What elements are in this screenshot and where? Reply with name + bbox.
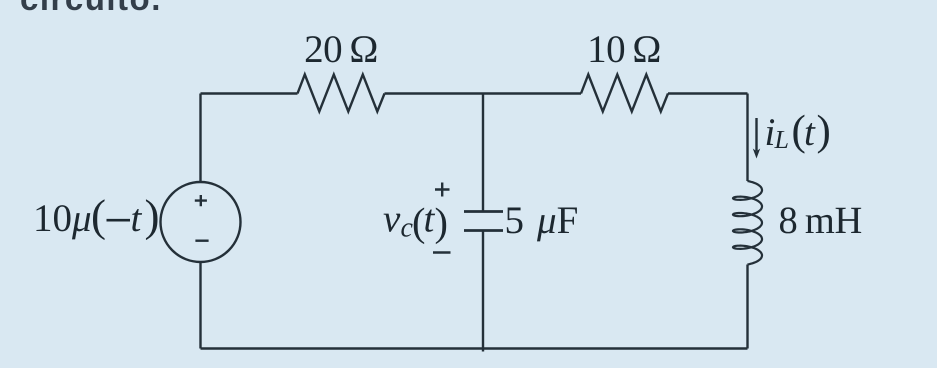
- wire top-right: to right branch: [668, 92, 748, 94]
- resistor R=10ohm zigzag: [581, 75, 668, 112]
- svg-text:5 μF: 5 μF: [505, 199, 579, 242]
- wire top-left: from left branch to 20ohm resistor: [201, 92, 298, 94]
- resistor R=20ohm zigzag: [298, 75, 385, 112]
- wire right branch lower: [746, 265, 748, 349]
- inductor L=8mH coil: [733, 181, 762, 265]
- capacitor C=5uF plates: [464, 212, 503, 231]
- svg-text:): ): [817, 107, 831, 154]
- svg-text:20 Ω: 20 Ω: [304, 28, 378, 71]
- svg-text:10μ: 10μ: [33, 197, 92, 240]
- svg-text:): ): [435, 200, 448, 245]
- label iL(t): [765, 107, 831, 154]
- capacitor plus sign: [435, 183, 450, 197]
- wire bottom: [201, 347, 748, 350]
- voltage source circle: [161, 182, 241, 262]
- current arrow iL: [755, 118, 757, 151]
- svg-text:v: v: [383, 198, 401, 241]
- svg-text:t: t: [131, 197, 143, 240]
- label 10mu(-t): [33, 190, 160, 240]
- wire middle branch upper: [482, 94, 484, 212]
- wire left branch lower: [199, 262, 201, 349]
- wire right branch upper: [746, 94, 748, 182]
- source plus sign: [195, 195, 207, 206]
- source minus sign: [195, 239, 208, 241]
- svg-text:t: t: [804, 111, 816, 154]
- wire left branch upper: [199, 94, 201, 183]
- svg-text:10 Ω: 10 Ω: [587, 28, 661, 71]
- label vc(t): [383, 198, 448, 245]
- wire middle branch lower: [482, 231, 484, 352]
- capacitor minus sign: [433, 251, 451, 253]
- caption text (cut off at top): "circuito.": [20, 0, 162, 18]
- wire top-middle: between resistors: [385, 92, 582, 94]
- svg-text:8 mH: 8 mH: [779, 200, 863, 242]
- svg-text:): ): [145, 190, 160, 240]
- svg-text:(: (: [91, 190, 106, 240]
- svg-text:L: L: [774, 125, 789, 154]
